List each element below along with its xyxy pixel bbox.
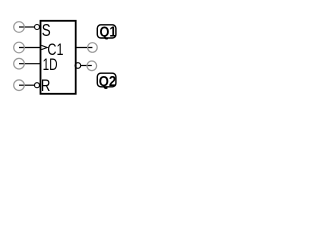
- net label box Q1: [97, 25, 116, 38]
- open pin end circle 1D: [14, 58, 25, 69]
- inversion bubble on S: [35, 25, 40, 30]
- open wire end circle Q1: [88, 43, 98, 53]
- inversion bubble on R: [35, 83, 40, 88]
- svg-text:Q2: Q2: [99, 72, 117, 89]
- svg-text:S: S: [42, 22, 51, 41]
- wire Q1 output: [76, 47, 93, 49]
- wire C1 clock input: [19, 47, 41, 49]
- svg-text:1D: 1D: [43, 56, 58, 74]
- wire R input: [19, 84, 35, 86]
- inversion bubble on Q2: [75, 63, 81, 69]
- open wire end circle Q2: [87, 61, 97, 71]
- wire 1D data input: [19, 63, 41, 65]
- net label box Q2: [97, 73, 116, 87]
- wire Q2 output: [81, 65, 92, 67]
- svg-text:R: R: [41, 77, 51, 96]
- open pin end circle C1: [14, 42, 25, 53]
- wire S input: [19, 26, 35, 28]
- clock edge triangle at C1: [41, 45, 47, 49]
- open pin end circle R: [14, 80, 25, 91]
- svg-text:Q1: Q1: [100, 24, 117, 40]
- flip-flop body U1: [41, 21, 76, 94]
- open pin end circle S: [14, 22, 25, 33]
